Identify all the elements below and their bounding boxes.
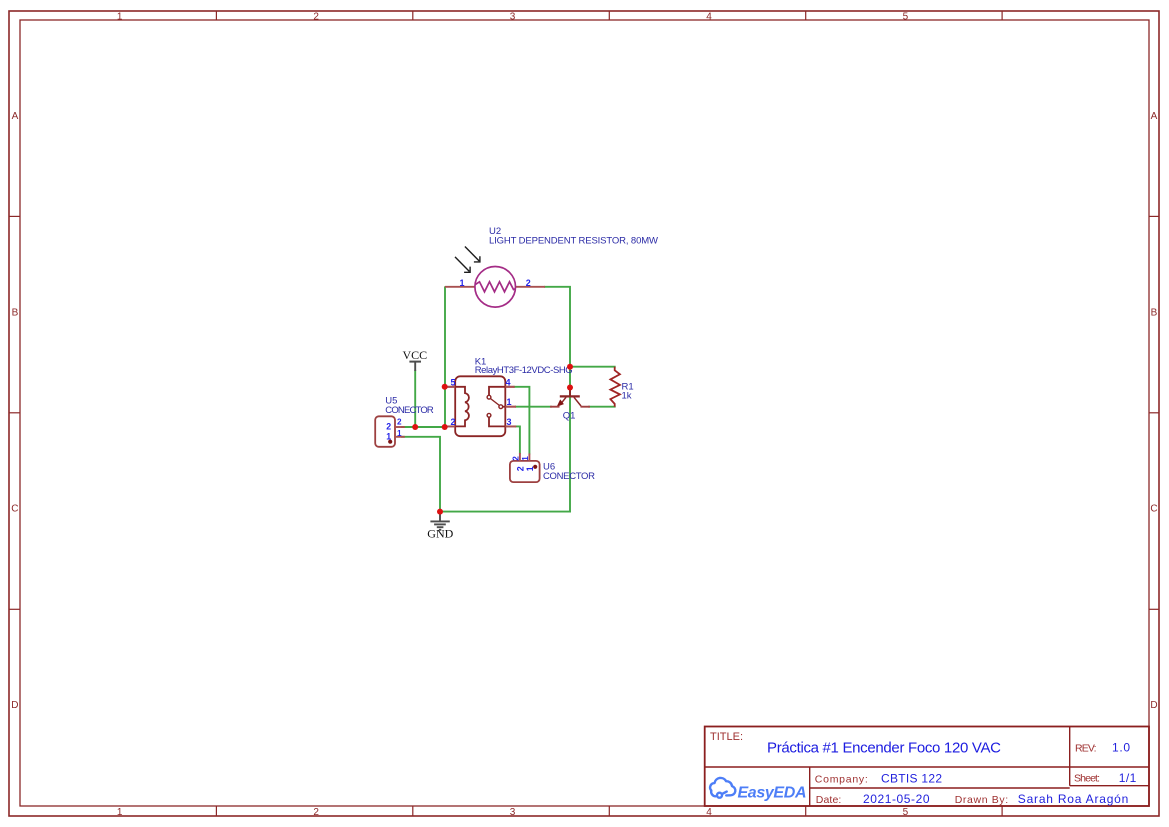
relay K1 body [455, 376, 505, 436]
svg-text:2: 2 [313, 807, 319, 818]
relay pin1 lead [503, 406, 516, 408]
frame column labels top [117, 11, 909, 22]
LDR zigzag [475, 282, 515, 292]
U6 pin1 marker dot [533, 465, 537, 469]
svg-text:Drawn By:: Drawn By: [955, 794, 1009, 806]
svg-text:2: 2 [386, 422, 391, 432]
svg-text:CONECTOR: CONECTOR [543, 471, 595, 482]
VCC symbol [403, 348, 428, 371]
frame row ticks left [9, 216, 20, 609]
relay contact circle pin4 [487, 395, 491, 399]
svg-text:EasyEDA: EasyEDA [738, 785, 807, 802]
junction R1 top node [567, 364, 573, 370]
svg-text:1/1: 1/1 [1119, 771, 1137, 785]
Q1 collector stub [581, 406, 591, 408]
svg-text:2: 2 [397, 418, 402, 427]
junction Q1 base node [567, 385, 573, 391]
svg-text:A: A [1151, 111, 1158, 122]
junction relay pin2 node [442, 424, 448, 430]
frame column labels bottom [117, 807, 909, 818]
svg-text:4: 4 [706, 11, 712, 22]
junction GND node [437, 509, 443, 515]
U6 pin 2 stub [519, 453, 521, 461]
svg-text:2: 2 [313, 11, 319, 22]
svg-text:C: C [1150, 504, 1157, 515]
svg-text:1: 1 [117, 11, 123, 22]
svg-text:Company:: Company: [815, 773, 868, 785]
svg-text:1: 1 [521, 456, 530, 461]
relay pin3 outer stub [505, 425, 516, 427]
relay contact circle pin1 [499, 405, 503, 409]
svg-text:1.0: 1.0 [1112, 741, 1130, 755]
relay coil with pin5/pin2 leads [445, 387, 469, 427]
svg-text:4: 4 [706, 807, 712, 818]
U6 body [510, 461, 540, 482]
relay contact circle pin3 [487, 413, 491, 417]
Q1 emitter stub [550, 406, 560, 408]
GND symbol [427, 512, 453, 541]
svg-text:D: D [11, 700, 18, 711]
Q1 base bar [560, 395, 580, 397]
Q1 emitter with arrow [561, 397, 567, 404]
wire relay pin4 to U6 pin1 [515, 387, 530, 454]
svg-text:5: 5 [903, 11, 909, 22]
frame row ticks right [1149, 216, 1159, 609]
svg-text:VCC: VCC [403, 348, 428, 362]
R1 zigzag [610, 367, 620, 407]
relay pin5 outer stub [445, 386, 456, 388]
svg-text:3: 3 [507, 417, 512, 427]
LDR circle U2 [475, 267, 516, 308]
svg-text:GND: GND [427, 527, 453, 541]
svg-text:REV:: REV: [1075, 743, 1097, 755]
relay pin1 outer stub [505, 406, 516, 408]
svg-text:2: 2 [526, 278, 531, 288]
U5 body [375, 416, 395, 447]
svg-text:TITLE:: TITLE: [710, 731, 743, 743]
svg-text:1: 1 [460, 278, 465, 288]
svg-text:D: D [1150, 700, 1157, 711]
junction VCC node [412, 424, 418, 430]
svg-text:Date:: Date: [816, 794, 842, 806]
junction relay pin5 node [442, 384, 448, 390]
svg-text:5: 5 [451, 377, 456, 387]
svg-text:2: 2 [451, 417, 456, 427]
wire LDR pin2 to right vertical down to GND row [545, 287, 570, 512]
wire U5 pin2 to relay pin2 node [402, 426, 445, 428]
U6 pin 1 stub [528, 454, 530, 462]
svg-text:C: C [11, 504, 18, 515]
svg-text:Q1: Q1 [563, 410, 576, 421]
svg-text:A: A [12, 111, 19, 122]
svg-text:CONECTOR: CONECTOR [385, 405, 434, 416]
frame row labels left [11, 111, 18, 711]
svg-text:1: 1 [397, 429, 402, 438]
U5 pin1 marker dot [388, 440, 392, 444]
svg-text:2: 2 [511, 456, 520, 461]
Q1 collector [574, 397, 581, 406]
wire Q1 collector to R1 bottom [589, 406, 615, 408]
svg-text:5: 5 [903, 807, 909, 818]
svg-text:1k: 1k [622, 391, 632, 402]
frame column ticks bottom [216, 806, 1002, 816]
light arrow 1 [465, 247, 480, 262]
relay pin2 outer stub [445, 425, 456, 427]
svg-text:4: 4 [506, 377, 511, 387]
svg-text:B: B [12, 307, 19, 318]
relay pin4 outer stub [505, 386, 514, 388]
svg-text:RelayHT3F-12VDC-SHG: RelayHT3F-12VDC-SHG [475, 365, 573, 376]
light arrow 2 [455, 257, 470, 272]
wire relay pin3 to U6 pin2 [516, 426, 520, 452]
LDR pin 2 wire [515, 286, 546, 288]
wire VCC stub down [414, 371, 416, 427]
svg-text:B: B [1151, 307, 1158, 318]
svg-text:Sheet:: Sheet: [1074, 773, 1100, 785]
U5 pin 2 stub [395, 426, 405, 428]
svg-text:Sarah Roa Aragón: Sarah Roa Aragón [1018, 792, 1129, 806]
wire GND row horizontal [440, 511, 570, 513]
relay pin4 lead and common contact [489, 387, 515, 396]
svg-text:3: 3 [510, 807, 516, 818]
svg-text:1: 1 [507, 397, 512, 407]
svg-text:3: 3 [510, 11, 516, 22]
frame column ticks top [216, 11, 1002, 20]
wire base node to R1 top [570, 366, 615, 368]
Q1 base stub [569, 389, 571, 397]
relay switch blade [490, 399, 499, 406]
wire relay pin1 to Q1 emitter [516, 406, 551, 408]
U5 pin 1 stub [395, 436, 405, 438]
svg-text:2021-05-20: 2021-05-20 [863, 792, 930, 806]
title block outline [705, 727, 1149, 807]
svg-text:LIGHT DEPENDENT RESISTOR, 80MW: LIGHT DEPENDENT RESISTOR, 80MW [489, 236, 658, 247]
wire U5 pin1 to GND node [402, 437, 440, 512]
frame row labels right [1150, 111, 1157, 711]
wire left vertical from LDR pin1 down to relay pin2 row [444, 287, 446, 427]
relay pin3 lead [489, 417, 516, 426]
svg-text:Práctica #1 Encender Foco 120: Práctica #1 Encender Foco 120 VAC [767, 739, 1001, 756]
svg-text:CBTIS 122: CBTIS 122 [881, 772, 942, 786]
LDR pin 1 wire [445, 286, 476, 288]
EasyEDA logo cloud [710, 778, 735, 798]
svg-text:1: 1 [117, 807, 123, 818]
